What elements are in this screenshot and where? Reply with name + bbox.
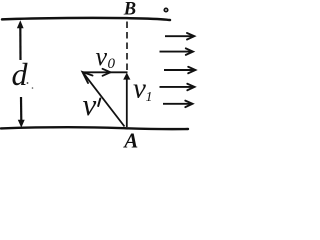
top plate line (2, 18, 170, 20)
field arrow 1 (165, 33, 194, 40)
field arrow 4 (160, 84, 195, 91)
dashed vertical line from B to vector corner (126, 22, 128, 71)
vector v0 (horizontal, arrowhead right mid-shaft) (82, 69, 128, 76)
speck dots near d (27, 82, 29, 84)
svg-text:v: v (96, 42, 108, 71)
svg-text:v: v (83, 87, 97, 122)
svg-text:1: 1 (146, 90, 153, 105)
label v1 (133, 73, 153, 106)
label v0 (96, 42, 116, 72)
field arrow 2 (160, 48, 194, 55)
dimension arrow d lower segment (arrowhead down) (18, 97, 25, 128)
bottom plate line (1, 127, 188, 129)
vector v' (diagonal, arrowhead upper-left) (83, 72, 125, 127)
field arrow 5 (163, 101, 193, 108)
vector v1 (vertical up, filled arrowhead) (123, 73, 130, 127)
label v' (83, 87, 101, 122)
svg-text:A: A (122, 128, 138, 149)
dimension arrow d upper segment (arrowhead up) (17, 20, 24, 60)
svg-text:0: 0 (108, 56, 116, 72)
field arrow 3 (164, 67, 195, 74)
small circle above top plate right end (164, 8, 167, 11)
svg-text:B: B (123, 0, 136, 20)
svg-text:d: d (12, 56, 29, 92)
svg-text:v: v (133, 73, 146, 105)
